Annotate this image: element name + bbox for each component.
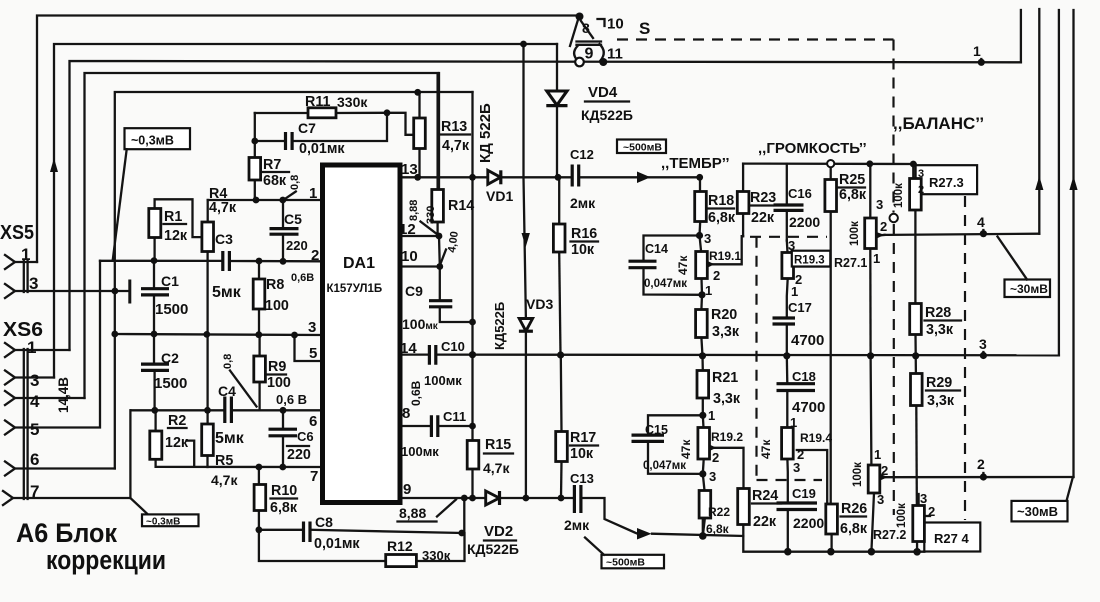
svg-text:R15: R15 [485,437,511,453]
svg-text:47к: 47к [676,255,690,275]
svg-text:0,047мк: 0,047мк [643,460,686,472]
svg-text:2мк: 2мк [564,517,590,533]
svg-text:C15: C15 [645,423,668,437]
svg-text:C11: C11 [443,409,466,424]
svg-text:12: 12 [399,221,416,238]
svg-text:2200: 2200 [789,214,820,230]
svg-text:А6 Блок: А6 Блок [16,518,117,548]
svg-text:~0,3мВ: ~0,3мВ [131,134,174,148]
svg-text:6,8к: 6,8к [839,187,867,203]
svg-text:R27.1: R27.1 [834,256,867,270]
svg-text:R1: R1 [164,209,182,225]
svg-text:,,ТЕМБР’’: ,,ТЕМБР’’ [661,155,730,172]
svg-text:12к: 12к [164,228,188,244]
svg-text:0,8: 0,8 [289,175,301,190]
svg-text:C10: C10 [441,339,465,354]
svg-text:R27 4: R27 4 [934,531,969,546]
svg-text:330к: 330к [337,94,368,110]
svg-text:,,БАЛАНС’’: ,,БАЛАНС’’ [893,114,984,133]
svg-text:100к: 100к [896,503,908,528]
svg-text:2: 2 [928,504,935,519]
svg-text:3,3к: 3,3к [926,322,954,338]
svg-text:7: 7 [30,482,39,501]
svg-text:VD4: VD4 [588,84,618,101]
svg-text:DA1: DA1 [343,255,375,272]
svg-text:330к: 330к [422,548,451,563]
svg-text:C2: C2 [161,350,179,366]
svg-text:10: 10 [401,248,418,265]
svg-text:R2: R2 [168,413,186,429]
svg-text:К157УЛ1Б: К157УЛ1Б [327,283,383,295]
svg-text:коррекции: коррекции [46,545,166,575]
svg-text:КД 522Б: КД 522Б [477,103,494,163]
svg-text:100к: 100к [893,183,905,208]
svg-text:100мк: 100мк [424,373,462,388]
svg-text:12к: 12к [165,435,189,451]
svg-text:C3: C3 [215,231,233,247]
svg-text:R11: R11 [305,94,330,110]
svg-text:3: 3 [877,492,884,507]
svg-text:КД522Б: КД522Б [467,541,519,557]
svg-text:100: 100 [265,298,289,314]
svg-text:7: 7 [310,468,318,485]
svg-text:0,6 В: 0,6 В [276,392,307,407]
svg-text:R23: R23 [750,190,776,206]
svg-text:~30мВ: ~30мВ [1017,504,1058,519]
svg-text:1500: 1500 [155,301,188,318]
svg-text:R27.2: R27.2 [873,528,906,542]
svg-text:R10: R10 [271,483,297,499]
svg-text:4700: 4700 [792,399,825,416]
svg-text:3: 3 [709,469,716,484]
svg-text:4: 4 [977,214,985,230]
svg-text:9: 9 [585,46,594,63]
svg-text:6: 6 [30,450,39,469]
svg-text:R26: R26 [841,501,867,517]
svg-text:C12: C12 [570,147,594,162]
svg-text:R22: R22 [708,505,730,519]
svg-text:8,88: 8,88 [408,200,420,221]
svg-text:3,3к: 3,3к [712,324,740,340]
svg-text:3: 3 [788,238,795,253]
svg-text:R9: R9 [268,359,286,375]
svg-text:КД522Б: КД522Б [492,302,507,350]
svg-text:3: 3 [793,460,800,475]
svg-text:2: 2 [881,463,888,478]
svg-text:68к: 68к [263,173,287,189]
svg-text:C19: C19 [792,486,816,501]
svg-text:~500мВ: ~500мВ [623,142,662,154]
svg-text:R20: R20 [711,307,737,323]
svg-text:3: 3 [876,197,883,212]
svg-text:14: 14 [400,340,417,357]
svg-text:C18: C18 [792,369,816,384]
svg-text:C8: C8 [315,514,333,530]
svg-text:22к: 22к [753,514,777,530]
svg-text:1: 1 [873,251,880,266]
svg-text:R19.2: R19.2 [711,430,743,444]
svg-text:3: 3 [918,168,924,180]
svg-text:6,8к: 6,8к [270,500,298,516]
svg-text:ХS5: ХS5 [0,222,34,244]
svg-text:5мк: 5мк [215,430,245,447]
svg-text:0,6В: 0,6В [291,272,314,284]
svg-text:3: 3 [30,371,39,390]
svg-text:0,01мк: 0,01мк [314,536,360,552]
svg-text:3: 3 [979,336,987,352]
svg-text:3: 3 [29,274,38,293]
svg-text:6,8к: 6,8к [706,522,730,536]
svg-text:R16: R16 [571,226,597,242]
svg-text:1: 1 [790,415,797,430]
svg-text:R7: R7 [263,157,281,173]
svg-text:C4: C4 [218,383,236,399]
svg-text:3,3к: 3,3к [927,393,955,409]
svg-text:4700: 4700 [791,332,824,349]
svg-text:R24: R24 [752,488,778,504]
svg-text:2: 2 [311,247,319,264]
svg-text:VD2: VD2 [484,523,513,540]
svg-text:1: 1 [973,43,981,59]
svg-text:R19.4: R19.4 [800,431,832,445]
svg-text:13: 13 [401,161,418,178]
svg-text:VD1: VD1 [486,188,513,204]
svg-text:~30мВ: ~30мВ [1010,282,1048,296]
svg-text:R18: R18 [708,193,734,209]
svg-text:0,6В: 0,6В [409,380,423,406]
svg-text:VD3: VD3 [526,296,553,312]
svg-text:5: 5 [30,420,39,439]
svg-text:2: 2 [977,456,985,472]
svg-text:R19.1: R19.1 [709,249,741,263]
svg-text:4,7к: 4,7к [442,138,470,154]
svg-text:2: 2 [918,184,924,196]
svg-text:2мк: 2мк [570,195,596,211]
svg-text:R17: R17 [570,430,596,446]
svg-text:2: 2 [712,450,719,465]
svg-text:5мк: 5мк [212,284,242,301]
svg-text:R28: R28 [925,305,951,321]
svg-text:100мк: 100мк [401,444,439,459]
svg-text:~500мВ: ~500мВ [606,557,645,569]
svg-text:1: 1 [27,338,36,357]
svg-text:8,88: 8,88 [399,505,426,521]
svg-text:C9: C9 [405,283,423,299]
svg-text:4,7к: 4,7к [483,460,510,476]
svg-text:R27.3: R27.3 [929,175,964,190]
svg-text:6,8к: 6,8к [840,521,868,537]
svg-text:1: 1 [708,408,715,423]
svg-text:C14: C14 [645,242,668,256]
svg-text:C13: C13 [570,471,594,486]
svg-text:C16: C16 [788,186,812,201]
svg-text:100: 100 [267,375,291,391]
svg-text:4: 4 [30,392,40,411]
svg-text:5: 5 [309,345,317,362]
svg-text:22к: 22к [751,210,775,226]
svg-text:R29: R29 [926,375,952,391]
svg-text:47к: 47к [679,439,693,459]
svg-text:2: 2 [713,268,720,283]
svg-text:R14: R14 [448,198,474,214]
svg-text:10к: 10к [571,242,595,258]
svg-text:100к: 100к [849,221,861,246]
svg-text:1: 1 [874,447,881,462]
svg-text:14,4В: 14,4В [56,377,71,413]
svg-text:6,8к: 6,8к [708,210,736,226]
svg-text:8: 8 [402,405,410,422]
svg-text:9: 9 [403,481,411,498]
svg-text:10к: 10к [570,446,594,462]
svg-text:2: 2 [880,219,887,234]
svg-text:C5: C5 [284,211,302,227]
svg-text:11: 11 [607,46,623,63]
svg-text:C7: C7 [298,120,316,136]
svg-text:R12: R12 [387,538,413,554]
svg-text:3: 3 [308,319,316,336]
svg-text:R19.3: R19.3 [794,255,825,267]
svg-text:~0,3мВ: ~0,3мВ [146,517,180,528]
svg-text:C17: C17 [788,300,812,315]
svg-text:1500: 1500 [154,375,187,392]
svg-text:R5: R5 [215,453,233,469]
svg-text:4,7к: 4,7к [209,200,237,216]
svg-text:1: 1 [21,245,30,264]
svg-text:R8: R8 [266,277,284,293]
svg-text:10: 10 [607,16,624,33]
svg-text:3,3к: 3,3к [713,391,741,407]
svg-text:R21: R21 [712,370,738,386]
svg-text:1: 1 [791,284,798,299]
svg-text:330: 330 [425,206,437,224]
svg-text:R13: R13 [441,119,467,135]
svg-text:2200: 2200 [793,515,824,531]
svg-text:S: S [639,19,650,38]
svg-text:3: 3 [920,491,927,506]
svg-text:0,01мк: 0,01мк [299,141,345,157]
svg-text:220: 220 [287,447,311,463]
svg-text:C1: C1 [161,273,179,289]
svg-text:R25: R25 [839,172,865,188]
svg-text:47к: 47к [759,439,773,459]
svg-text:0,047мк: 0,047мк [644,278,687,290]
svg-text:8: 8 [582,20,590,36]
svg-text:1: 1 [705,283,712,298]
svg-text:С6: С6 [297,429,314,444]
svg-text:4,7к: 4,7к [211,472,238,488]
svg-text:ХS6: ХS6 [3,319,43,341]
svg-text:3: 3 [704,231,711,246]
svg-text:КД522Б: КД522Б [581,107,633,123]
svg-text:100к: 100к [852,462,864,487]
svg-text:6: 6 [309,413,317,430]
svg-text:1: 1 [309,185,317,202]
svg-text:0,8: 0,8 [222,354,234,369]
svg-text:220: 220 [286,238,308,253]
svg-text:,,ГРОМКОСТЬ’’: ,,ГРОМКОСТЬ’’ [758,140,867,157]
